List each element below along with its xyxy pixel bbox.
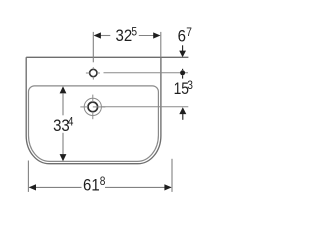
svg-text:5: 5	[131, 26, 137, 39]
svg-text:7: 7	[186, 26, 192, 39]
svg-text:6: 6	[178, 28, 187, 46]
svg-text:8: 8	[100, 175, 106, 188]
svg-text:32: 32	[116, 27, 133, 45]
svg-text:4: 4	[68, 116, 74, 129]
svg-text:61: 61	[83, 177, 100, 195]
svg-text:3: 3	[187, 79, 193, 92]
